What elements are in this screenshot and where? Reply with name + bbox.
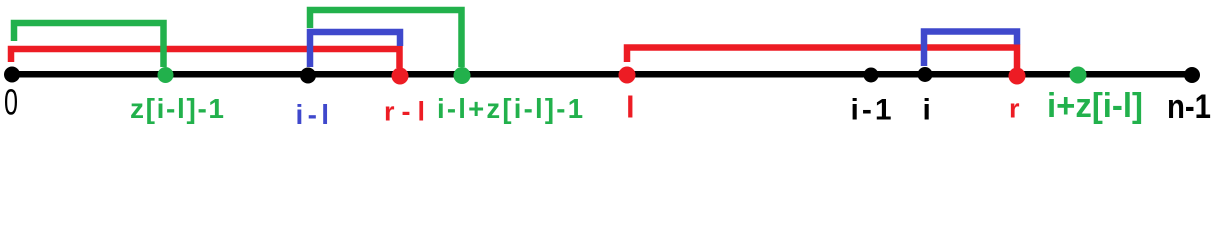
svg-text:l: l [626, 90, 635, 125]
svg-text:z[i-l]-1: z[i-l]-1 [130, 93, 224, 124]
svg-text:n-1: n-1 [1167, 88, 1211, 126]
svg-text:i-1: i-1 [851, 94, 892, 127]
svg-text:r-l: r-l [384, 97, 425, 127]
svg-text:r: r [1009, 93, 1020, 123]
svg-text:i: i [923, 94, 931, 127]
svg-text:i+z[i-l]: i+z[i-l] [1047, 87, 1143, 125]
svg-text:i-l: i-l [296, 99, 330, 130]
svg-text:0: 0 [4, 82, 18, 123]
svg-text:i-l+z[i-l]-1: i-l+z[i-l]-1 [437, 93, 583, 124]
